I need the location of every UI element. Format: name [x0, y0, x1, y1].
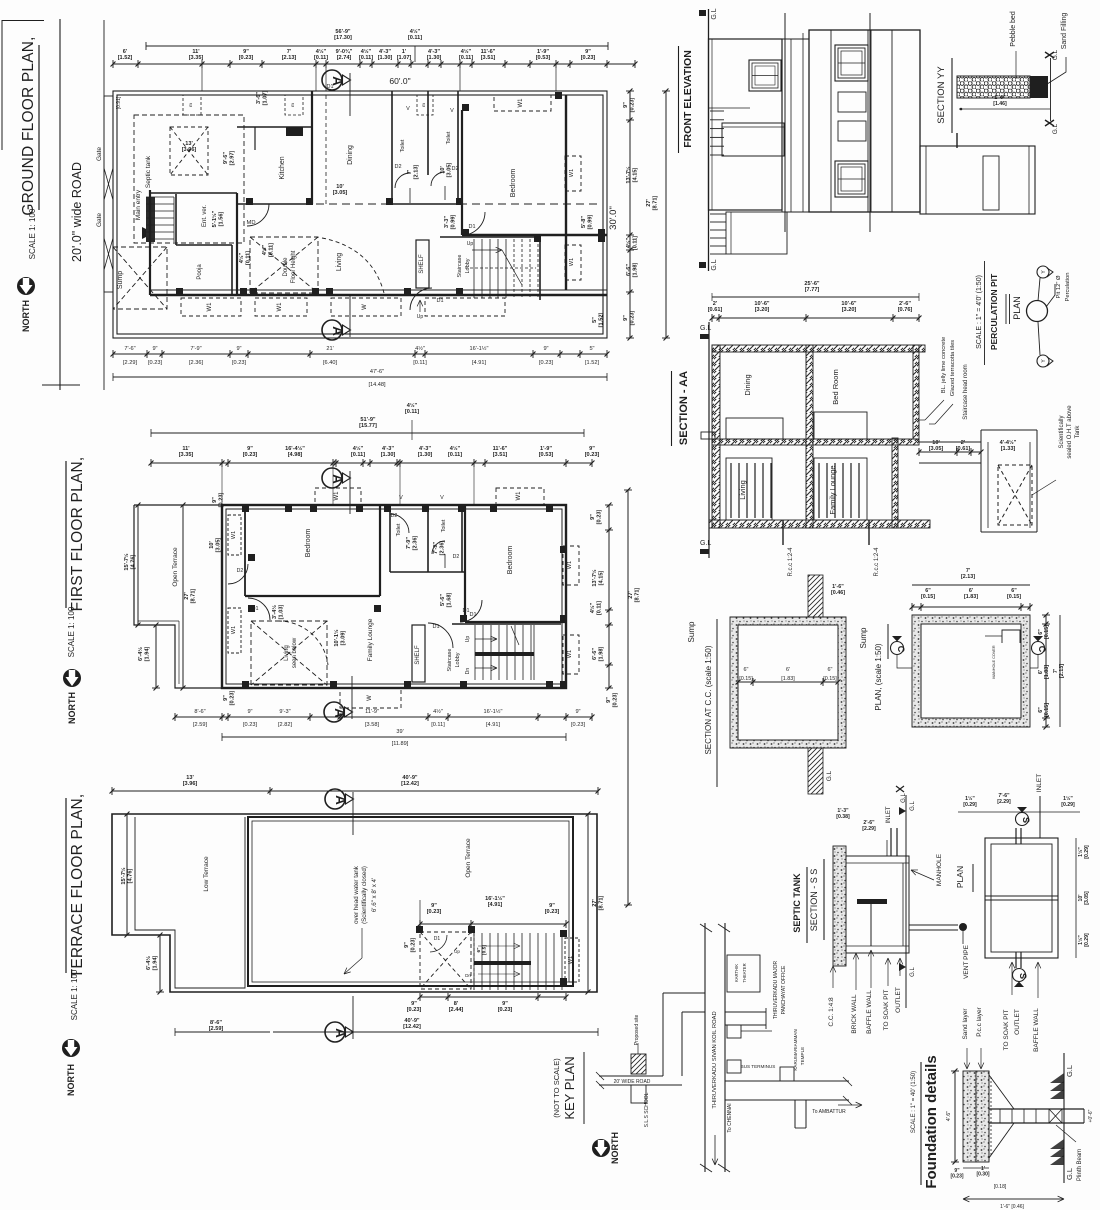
svg-text:9": 9" [589, 446, 595, 452]
svg-text:60'.0": 60'.0" [389, 76, 410, 86]
svg-text:[3.05]: [3.05] [929, 446, 944, 452]
svg-text:[3.96]: [3.96] [182, 147, 197, 153]
svg-text:G.L: G.L [1052, 49, 1059, 60]
svg-text:39': 39' [396, 729, 403, 735]
svg-text:G.L: G.L [910, 967, 916, 977]
svg-text:9": 9" [543, 346, 548, 352]
svg-text:9": 9" [152, 346, 157, 352]
svg-text:[0.23]: [0.23] [427, 909, 442, 915]
svg-text:Tank: Tank [1075, 425, 1081, 439]
svg-text:13': 13' [185, 141, 193, 147]
svg-text:[1.30]: [1.30] [418, 452, 433, 458]
svg-text:[15.77]: [15.77] [359, 423, 377, 429]
svg-text:[2.36]: [2.36] [189, 360, 203, 366]
svg-text:[0.23]: [0.23] [239, 55, 254, 61]
svg-text:4½": 4½" [316, 48, 327, 55]
svg-text:9": 9" [575, 709, 580, 715]
svg-text:SHELF: SHELF [419, 254, 425, 274]
svg-text:[1.83]: [1.83] [781, 676, 795, 682]
svg-text:G.L: G.L [1065, 1065, 1074, 1077]
svg-text:W1: W1 [567, 561, 573, 569]
svg-text:[1.94]: [1.94] [152, 956, 158, 971]
svg-text:9": 9" [247, 709, 252, 715]
svg-text:[1.56]: [1.56] [218, 212, 224, 227]
svg-text:[0.29]: [0.29] [963, 802, 977, 808]
svg-text:W: W [362, 304, 368, 310]
svg-text:[0.23]: [0.23] [229, 691, 235, 706]
svg-text:PANCHAYAT OFFICE: PANCHAYAT OFFICE [781, 965, 787, 1014]
svg-text:9'-6": 9'-6" [223, 152, 229, 164]
svg-text:7'-9": 7'-9" [190, 346, 201, 352]
svg-text:4½": 4½" [353, 445, 364, 452]
svg-text:W1: W1 [567, 650, 573, 658]
svg-text:W1: W1 [277, 302, 283, 312]
svg-text:Staircase: Staircase [447, 649, 453, 672]
svg-text:6'.6" x 8' x 4': 6'.6" x 8' x 4' [371, 878, 378, 912]
svg-text:16'-4½": 16'-4½" [285, 445, 305, 452]
svg-text:4½": 4½" [238, 252, 245, 263]
svg-text:V: V [399, 495, 403, 501]
svg-text:SCALE 1: 100: SCALE 1: 100 [67, 606, 76, 657]
svg-text:[8.71]: [8.71] [652, 196, 658, 211]
svg-text:[12.42]: [12.42] [401, 781, 419, 787]
svg-text:2'-6": 2'-6" [899, 301, 911, 307]
svg-text:NORTH: NORTH [21, 300, 31, 332]
svg-text:9": 9" [585, 49, 591, 55]
svg-text:9": 9" [223, 695, 229, 701]
svg-text:[0.23]: [0.23] [581, 55, 596, 61]
svg-text:D1: D1 [469, 612, 476, 618]
svg-text:Floor Height: Floor Height [291, 250, 297, 283]
svg-text:[0.23]: [0.23] [407, 1007, 422, 1013]
svg-text:11'-6": 11'-6" [493, 446, 508, 452]
svg-text:20'.0" wide ROAD: 20'.0" wide ROAD [70, 162, 84, 262]
svg-text:4½": 4½" [433, 708, 443, 715]
svg-text:16'-1½": 16'-1½" [485, 895, 505, 902]
svg-text:Lobby: Lobby [465, 258, 471, 273]
svg-text:9": 9" [404, 942, 410, 948]
svg-text:[0.38]: [0.38] [836, 814, 850, 820]
svg-text:[0.11]: [0.11] [431, 722, 445, 728]
svg-text:V: V [450, 108, 454, 114]
svg-text:8'-6": 8'-6" [210, 1020, 222, 1026]
svg-text:10': 10' [209, 541, 215, 549]
svg-text:4½": 4½" [461, 48, 472, 55]
svg-text:[3.20]: [3.20] [755, 307, 770, 313]
svg-text:[2.74]: [2.74] [337, 55, 352, 61]
svg-text:Toilet: Toilet [396, 523, 402, 536]
svg-text:PERCULATION PIT: PERCULATION PIT [989, 273, 999, 350]
svg-text:[2.13]: [2.13] [282, 55, 297, 61]
svg-text:7'-9": 7'-9" [406, 537, 412, 549]
svg-text:[0.23]: [0.23] [571, 722, 585, 728]
svg-text:[0.5]: [0.5] [482, 945, 488, 955]
svg-text:30'.0": 30'.0" [608, 206, 619, 230]
svg-text:[2.59]: [2.59] [209, 1026, 224, 1032]
svg-text:9": 9" [502, 1001, 508, 1007]
svg-text:W1: W1 [516, 491, 522, 501]
svg-text:[0.23]: [0.23] [243, 722, 257, 728]
svg-text:9": 9" [623, 102, 629, 108]
svg-text:[2.29]: [2.29] [997, 799, 1011, 805]
svg-text:4'-3": 4'-3" [428, 49, 440, 55]
svg-text:[2.36]: [2.36] [439, 541, 445, 556]
svg-text:Family Lounge: Family Lounge [367, 618, 374, 661]
svg-text:16'-1½": 16'-1½" [470, 345, 489, 352]
svg-text:[1.03]: [1.03] [278, 605, 284, 620]
svg-text:[0.99]: [0.99] [450, 215, 456, 230]
svg-text:4½": 4½" [261, 244, 268, 255]
svg-text:4'-3": 4'-3" [419, 446, 431, 452]
svg-text:D1: D1 [326, 84, 333, 90]
svg-text:[2.29]: [2.29] [862, 826, 876, 832]
svg-text:[0.29]: [0.29] [1084, 933, 1090, 947]
svg-text:[0.15]: [0.15] [823, 676, 837, 682]
svg-text:Dn: Dn [465, 668, 471, 675]
svg-text:Gate: Gate [96, 213, 103, 227]
svg-text:7': 7' [1053, 669, 1059, 673]
svg-text:[8.71]: [8.71] [634, 588, 640, 603]
svg-text:6'-4½: 6'-4½ [137, 647, 144, 661]
svg-text:[1.94]: [1.94] [144, 647, 150, 662]
svg-text:Pebble bed: Pebble bed [1010, 11, 1017, 47]
svg-text:10'-6": 10'-6" [841, 301, 857, 307]
svg-text:[1.33]: [1.33] [1001, 446, 1016, 452]
svg-text:[2.13]: [2.13] [413, 165, 419, 180]
svg-text:[3.05]: [3.05] [1084, 891, 1090, 905]
svg-text:11': 11' [192, 49, 200, 55]
svg-text:[8.71]: [8.71] [190, 589, 196, 604]
svg-text:[0.29]: [0.29] [1061, 802, 1075, 808]
svg-text:6": 6" [828, 667, 833, 673]
svg-text:Glazed terracotta tiles: Glazed terracotta tiles [950, 340, 956, 396]
svg-text:Toilet: Toilet [441, 519, 447, 532]
svg-text:5'-1½": 5'-1½" [211, 210, 218, 227]
svg-text:Open Terrace: Open Terrace [465, 838, 472, 878]
svg-text:FIRST FLOOR PLAN,: FIRST FLOOR PLAN, [69, 457, 86, 612]
svg-text:S: S [1021, 817, 1031, 823]
svg-text:[0.23]: [0.23] [232, 360, 246, 366]
svg-text:[1.83]: [1.83] [1044, 665, 1050, 679]
svg-text:[1.98]: [1.98] [632, 263, 638, 278]
svg-text:6": 6" [476, 948, 482, 953]
svg-text:MANHOLE COVER: MANHOLE COVER [992, 645, 996, 679]
svg-text:2': 2' [713, 301, 718, 307]
svg-text:Pit 12" Ø: Pit 12" Ø [1056, 275, 1062, 298]
svg-text:Up: Up [417, 314, 424, 320]
svg-text:P.c.c layer: P.c.c layer [976, 1006, 983, 1036]
svg-text:G.L: G.L [700, 325, 711, 332]
svg-text:NORTH: NORTH [66, 1064, 76, 1096]
svg-text:Sand layer: Sand layer [962, 1008, 969, 1040]
svg-text:[2.97]: [2.97] [229, 151, 235, 166]
svg-text:[0.99]: [0.99] [587, 215, 593, 230]
svg-text:7': 7' [287, 49, 292, 55]
svg-text:To CHENNAI: To CHENNAI [727, 1103, 733, 1132]
svg-text:25'-6": 25'-6" [804, 281, 820, 287]
svg-text:[0.18]: [0.18] [994, 1184, 1007, 1190]
svg-text:[0.15]: [0.15] [739, 676, 753, 682]
svg-text:PLAN, (scale 1:50): PLAN, (scale 1:50) [874, 643, 883, 710]
svg-text:10'-6": 10'-6" [754, 301, 770, 307]
svg-text:SCALE : 1" = 4'0' (1:50): SCALE : 1" = 4'0' (1:50) [976, 275, 983, 349]
svg-text:4½": 4½" [589, 602, 596, 613]
svg-text:TERRACE FLOOR PLAN,: TERRACE FLOOR PLAN, [69, 794, 86, 979]
svg-text:[0.23]: [0.23] [629, 98, 635, 113]
svg-text:6'-6": 6'-6" [592, 648, 598, 660]
svg-text:4'-3": 4'-3" [382, 446, 394, 452]
svg-text:11'-9": 11'-9" [365, 709, 379, 715]
svg-text:[3.35]: [3.35] [179, 452, 194, 458]
svg-text:[4.91]: [4.91] [472, 360, 486, 366]
svg-text:8': 8' [454, 1001, 459, 1007]
svg-text:9": 9" [236, 346, 241, 352]
svg-text:[3.05]: [3.05] [333, 190, 348, 196]
svg-text:[0.91]: [0.91] [116, 96, 122, 109]
svg-text:S.L.S SCHOOL: S.L.S SCHOOL [644, 1092, 650, 1127]
svg-text:9": 9" [243, 49, 249, 55]
svg-text:VENT PIPE: VENT PIPE [963, 944, 970, 979]
svg-text:Gate: Gate [96, 147, 103, 161]
svg-text:KEY PLAN: KEY PLAN [562, 1056, 577, 1119]
svg-text:SECTION - S S: SECTION - S S [809, 869, 819, 932]
svg-text:Up: Up [454, 949, 460, 954]
svg-text:INLET: INLET [1036, 774, 1043, 792]
svg-text:PLAN: PLAN [955, 866, 965, 888]
svg-text:[0.11]: [0.11] [448, 452, 462, 458]
svg-text:Bedroom: Bedroom [510, 169, 517, 198]
svg-text:SECTION YY: SECTION YY [936, 66, 947, 124]
svg-text:[2.36]: [2.36] [412, 536, 418, 551]
svg-text:Toilet: Toilet [400, 139, 406, 152]
svg-text:Double: Double [283, 257, 289, 277]
svg-text:[0.53]: [0.53] [536, 55, 551, 61]
svg-text:11': 11' [182, 446, 190, 452]
svg-text:3'-6": 3'-6" [256, 92, 262, 104]
svg-text:[0.23]: [0.23] [218, 493, 224, 508]
svg-text:[4.15]: [4.15] [598, 571, 604, 586]
svg-text:9'-3": 9'-3" [279, 709, 290, 715]
svg-text:9": 9" [590, 514, 596, 520]
svg-text:[1.52]: [1.52] [585, 360, 599, 366]
svg-text:[2.82]: [2.82] [278, 722, 292, 728]
svg-text:4½": 4½" [415, 345, 425, 352]
svg-text:Staircase: Staircase [457, 255, 463, 278]
svg-text:TO SOAK PIT: TO SOAK PIT [883, 990, 890, 1031]
svg-text:[6.40]: [6.40] [323, 360, 337, 366]
svg-text:BL. jelly lime concrete: BL. jelly lime concrete [941, 337, 947, 393]
svg-text:[12.42]: [12.42] [403, 1024, 421, 1030]
svg-text:15'-7½: 15'-7½ [123, 553, 130, 571]
svg-text:[11.89]: [11.89] [392, 741, 409, 747]
svg-text:over head water tank: over head water tank [353, 865, 360, 924]
svg-text:6'-4½: 6'-4½ [145, 956, 152, 970]
svg-text:[3.51]: [3.51] [493, 452, 508, 458]
svg-text:KARUMARIAMMAN: KARUMARIAMMAN [793, 1029, 798, 1070]
svg-text:4½": 4½" [625, 237, 632, 248]
svg-text:Bedroom: Bedroom [305, 529, 312, 558]
svg-text:9": 9" [606, 697, 612, 703]
svg-text:Sand Filling: Sand Filling [1061, 13, 1068, 50]
svg-text:10': 10' [336, 184, 344, 190]
svg-text:Kitchen: Kitchen [279, 156, 286, 179]
svg-text:Up: Up [467, 241, 474, 247]
svg-text:Dn: Dn [465, 973, 471, 978]
svg-text:BAFFLE WALL: BAFFLE WALL [866, 990, 873, 1034]
svg-text:sealed O.H.T above: sealed O.H.T above [1067, 405, 1073, 459]
svg-text:40'-9": 40'-9" [402, 775, 418, 781]
svg-text:W1: W1 [207, 302, 213, 312]
svg-text:KARTHIK: KARTHIK [734, 964, 739, 982]
svg-text:[4.76]: [4.76] [127, 869, 133, 884]
svg-text:V: V [406, 106, 410, 112]
svg-text:[0.76]: [0.76] [898, 307, 913, 313]
svg-text:[1.52]: [1.52] [598, 313, 604, 328]
svg-text:5'-6": 5'-6" [440, 594, 446, 606]
svg-text:6': 6' [786, 667, 790, 673]
svg-text:4½": 4½" [361, 48, 372, 55]
svg-text:6": 6" [1038, 707, 1044, 713]
svg-text:[0.46]: [0.46] [831, 590, 845, 596]
svg-text:6'-6": 6'-6" [626, 264, 632, 276]
svg-text:INLET: INLET [886, 806, 892, 823]
svg-text:SECTION AT C.C. (scale 1:50): SECTION AT C.C. (scale 1:50) [704, 645, 713, 754]
svg-text:Sump: Sump [687, 621, 696, 642]
svg-text:Bed Room: Bed Room [831, 369, 840, 404]
svg-text:[1.30]: [1.30] [378, 55, 393, 61]
svg-text:[0.11]: [0.11] [351, 452, 365, 458]
svg-text:27': 27' [184, 592, 190, 600]
svg-text:[2.13]: [2.13] [961, 574, 975, 580]
svg-text:13'-7½: 13'-7½ [591, 569, 598, 587]
svg-text:Dining: Dining [347, 145, 354, 165]
svg-text:Perculation: Perculation [1065, 272, 1071, 301]
svg-text:Scientifically: Scientifically [1059, 415, 1065, 448]
svg-text:OUTLET: OUTLET [1014, 1009, 1021, 1035]
svg-text:W1: W1 [231, 531, 237, 539]
svg-text:[0.23]: [0.23] [410, 938, 416, 953]
svg-text:[4.98]: [4.98] [288, 452, 303, 458]
svg-text:1'-6" [0.46]: 1'-6" [0.46] [1000, 1204, 1024, 1210]
svg-text:[0.11]: [0.11] [408, 35, 422, 41]
svg-text:10': 10' [932, 440, 940, 446]
svg-text:W1: W1 [334, 491, 340, 501]
svg-text:D2: D2 [237, 568, 244, 574]
svg-text:D1: D1 [434, 936, 441, 942]
svg-text:SECTION - AA: SECTION - AA [678, 371, 690, 445]
svg-text:[0.11]: [0.11] [359, 55, 373, 61]
svg-text:Proposed site: Proposed site [634, 1014, 640, 1045]
svg-text:[1.52]: [1.52] [118, 55, 133, 61]
svg-text:[0.23]: [0.23] [539, 360, 553, 366]
svg-text:[0.11]: [0.11] [596, 601, 602, 615]
svg-text:[0.23]: [0.23] [612, 693, 618, 708]
svg-text:[0.11]: [0.11] [245, 251, 251, 265]
svg-text:[0.23]: [0.23] [148, 360, 162, 366]
svg-text:3'-4½: 3'-4½ [271, 605, 278, 619]
svg-text:Low Terrace: Low Terrace [203, 856, 210, 892]
svg-text:SHELF: SHELF [415, 645, 421, 665]
svg-text:[0.29]: [0.29] [1084, 845, 1090, 859]
svg-text:[1.98]: [1.98] [598, 647, 604, 662]
svg-text:D1: D1 [432, 624, 439, 630]
svg-text:D2: D2 [391, 513, 398, 519]
svg-text:D1: D1 [436, 298, 443, 304]
svg-text:[1.07]: [1.07] [262, 91, 268, 106]
svg-text:C.C. 1:4:8: C.C. 1:4:8 [828, 997, 835, 1027]
svg-text:Dining: Dining [743, 374, 752, 395]
svg-text:10'-1½: 10'-1½ [333, 629, 340, 647]
svg-text:15'-7½: 15'-7½ [120, 867, 127, 885]
svg-text:W1: W1 [569, 169, 575, 177]
svg-text:W1: W1 [518, 98, 524, 108]
svg-text:9": 9" [247, 446, 253, 452]
svg-text:[7.77]: [7.77] [805, 287, 820, 293]
svg-text:G.L: G.L [700, 540, 711, 547]
svg-text:[4.76]: [4.76] [130, 555, 136, 570]
svg-text:[0.53]: [0.53] [539, 452, 554, 458]
svg-text:Toilet: Toilet [446, 131, 452, 144]
svg-text:[0.11]: [0.11] [632, 236, 638, 250]
svg-text:[0.11]: [0.11] [314, 55, 328, 61]
svg-text:[4.91]: [4.91] [486, 722, 500, 728]
svg-text:SEPTIC TANK: SEPTIC TANK [792, 873, 802, 933]
svg-text:R.c.c 1:2-4: R.c.c 1:2-4 [874, 547, 880, 577]
svg-text:MANHOLE: MANHOLE [936, 853, 943, 886]
svg-text:6": 6" [744, 667, 749, 673]
svg-text:[3.35]: [3.35] [189, 55, 204, 61]
svg-text:[2.44]: [2.44] [449, 1007, 464, 1013]
svg-text:[3.09]: [3.09] [340, 631, 346, 646]
svg-text:[0.23]: [0.23] [629, 311, 635, 326]
svg-text:G.L: G.L [1065, 1168, 1074, 1180]
svg-text:Main entry: Main entry [135, 189, 142, 220]
svg-text:G.L: G.L [910, 801, 916, 811]
svg-text:4'.6": 4'.6" [946, 1111, 952, 1122]
svg-text:V: V [440, 495, 444, 501]
svg-text:[0.11]: [0.11] [413, 360, 427, 366]
svg-text:[17.30]: [17.30] [334, 35, 352, 41]
svg-text:[0.23]: [0.23] [950, 1174, 963, 1180]
svg-text:BRICK WALL: BRICK WALL [851, 994, 858, 1034]
svg-text:Sump: Sump [859, 627, 868, 648]
svg-text:4'-3": 4'-3" [379, 49, 391, 55]
svg-text:D2: D2 [453, 554, 460, 560]
svg-text:40'-9": 40'-9" [404, 1018, 420, 1024]
svg-text:[2.13]: [2.13] [1059, 664, 1065, 678]
svg-text:4½": 4½" [407, 402, 418, 409]
svg-text:Sump: Sump [117, 271, 124, 289]
svg-text:4½": 4½" [450, 445, 461, 452]
svg-text:Staircase head room: Staircase head room [963, 364, 969, 419]
svg-text:Open Terrace: Open Terrace [172, 547, 179, 587]
svg-text:D1: D1 [468, 224, 475, 230]
svg-text:16'-1½": 16'-1½" [484, 708, 503, 715]
svg-text:W1: W1 [231, 626, 237, 634]
svg-text:7'-6": 7'-6" [124, 346, 135, 352]
svg-text:2': 2' [961, 440, 966, 446]
svg-text:SCALE 1: 100: SCALE 1: 100 [28, 208, 37, 259]
svg-text:Up: Up [465, 636, 471, 643]
svg-text:1'-9": 1'-9" [537, 49, 549, 55]
svg-text:+0'-6": +0'-6" [1088, 1109, 1094, 1122]
svg-text:9": 9" [411, 1001, 417, 1007]
svg-text:[1.46]: [1.46] [993, 101, 1007, 107]
svg-text:(NOT TO SCALE): (NOT TO SCALE) [552, 1058, 561, 1118]
svg-text:W1: W1 [569, 258, 575, 266]
svg-text:9": 9" [549, 903, 555, 909]
svg-text:THEATER: THEATER [742, 963, 747, 982]
